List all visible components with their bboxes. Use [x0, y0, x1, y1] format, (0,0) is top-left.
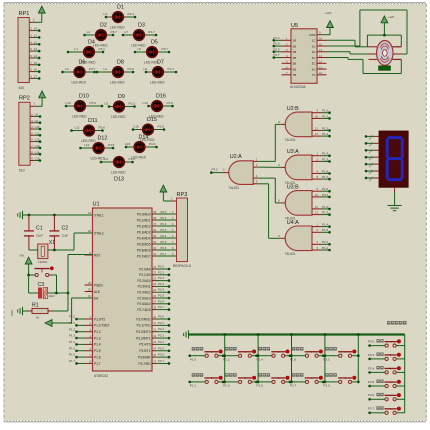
- svg-text:38: 38: [153, 216, 156, 220]
- U1 P3.0 wire: [152, 315, 170, 321]
- svg-text:P3.4/T0: P3.4/T0: [139, 343, 150, 347]
- svg-text:P0.5/AD5: P0.5/AD5: [137, 242, 151, 246]
- svg-text:510: 510: [19, 86, 25, 90]
- 7-seg pin P0.5 wire: [365, 168, 379, 175]
- svg-text:P1.1: P1.1: [190, 384, 197, 388]
- svg-text:LED-RED: LED-RED: [72, 115, 87, 119]
- U1 P1.0 wire: [69, 315, 84, 321]
- U1 P1.2 wire: [69, 327, 84, 333]
- svg-text:P1.5: P1.5: [94, 349, 101, 353]
- svg-text:P1.0: P1.0: [322, 109, 329, 113]
- svg-text:X1: X1: [49, 240, 55, 246]
- svg-text:P1.5: P1.5: [69, 346, 75, 350]
- svg-text:P0.1: P0.1: [161, 216, 167, 220]
- U5 pin 6 (nc): [282, 65, 292, 69]
- svg-text:L0: L0: [65, 67, 69, 71]
- svg-text:P2.6: P2.6: [274, 47, 280, 51]
- svg-text:P3.5: P3.5: [158, 346, 164, 350]
- svg-text:P1.6: P1.6: [322, 169, 329, 173]
- svg-text:13: 13: [315, 132, 319, 136]
- svg-text:P2.4: P2.4: [158, 288, 164, 292]
- svg-text:P1.4: P1.4: [69, 340, 75, 344]
- push button 三楼上 (P1.4): [255, 347, 291, 362]
- RP3 pin 1 wire to power: [163, 192, 176, 201]
- svg-text:L15: L15: [35, 157, 40, 161]
- svg-text:5C: 5C: [312, 62, 316, 66]
- svg-text:L3: L3: [34, 47, 38, 51]
- push button 三楼下 (P1.5): [255, 373, 291, 388]
- RP2 pin 2 wire, net L8: [30, 113, 41, 118]
- +12V power terminal at U5: [325, 11, 334, 28]
- svg-text:P0.7: P0.7: [161, 252, 167, 256]
- RP2 pin 9 wire, net L15: [30, 157, 41, 162]
- U1 P3.6 wire: [152, 353, 170, 359]
- svg-text:15: 15: [319, 42, 323, 46]
- svg-text:D12: D12: [98, 136, 108, 142]
- svg-text:3B: 3B: [293, 50, 297, 54]
- svg-text:P1.3: P1.3: [322, 211, 329, 215]
- svg-text:P1.3: P1.3: [322, 132, 329, 136]
- svg-text:P2.2: P2.2: [158, 276, 164, 280]
- svg-text:2C: 2C: [312, 44, 316, 48]
- svg-text:D7: D7: [157, 60, 164, 66]
- driver IC U5 ULN2003A: [290, 23, 317, 89]
- U1 pin 31 stub (EA): [85, 297, 93, 299]
- svg-text:P1.5: P1.5: [257, 384, 264, 388]
- AND gate U4:A 74LS21: [278, 220, 331, 256]
- LED D10: [65, 94, 104, 119]
- svg-text:P1.7: P1.7: [94, 362, 101, 366]
- svg-text:P1.5: P1.5: [322, 228, 329, 232]
- svg-text:P1.7: P1.7: [290, 384, 297, 388]
- U1 P1.4 wire: [69, 340, 84, 346]
- svg-text:L5: L5: [105, 101, 109, 105]
- svg-text:27: 27: [153, 300, 156, 304]
- svg-text:10: 10: [153, 315, 156, 319]
- svg-text:D5: D5: [151, 40, 158, 46]
- svg-text:6C: 6C: [312, 67, 316, 71]
- U1 pin 1 stub (P1.0/T2): [85, 318, 93, 320]
- svg-text:LED-RED: LED-RED: [72, 81, 87, 85]
- svg-text:10: 10: [319, 71, 323, 75]
- svg-text:P2.5/A13: P2.5/A13: [137, 296, 150, 300]
- svg-text:P1.4: P1.4: [322, 223, 329, 227]
- svg-text:L10: L10: [35, 125, 40, 129]
- svg-text:D11: D11: [88, 118, 98, 124]
- wire U3:A out to U2:A in2: [258, 166, 280, 168]
- svg-text:P0.3: P0.3: [161, 228, 167, 232]
- U2:A output pin 6 wire, net P3.2: [210, 168, 229, 174]
- svg-text:P1.2: P1.2: [322, 126, 329, 130]
- RP2 pin 5 wire, net L11: [30, 131, 41, 136]
- svg-text:LED-RED: LED-RED: [110, 81, 125, 85]
- svg-text:D8: D8: [117, 60, 124, 66]
- RP2 pin 1 wire to power: [30, 98, 42, 107]
- svg-text:L7: L7: [125, 30, 129, 34]
- svg-text:28: 28: [153, 305, 156, 309]
- svg-text:P1.7: P1.7: [69, 359, 75, 363]
- svg-text:P1.4: P1.4: [94, 343, 101, 347]
- push button 四楼 (P3.5): [368, 380, 405, 388]
- ground symbol (R1): [10, 307, 23, 316]
- microcontroller U1 AT89C52: [88, 202, 157, 378]
- RP1 pin 6 wire, net L4: [29, 54, 40, 59]
- svg-text:P3.4: P3.4: [158, 340, 164, 344]
- svg-text:L6: L6: [105, 157, 109, 161]
- svg-text:P1.1/T2EX: P1.1/T2EX: [94, 324, 110, 328]
- LED D14: [125, 135, 158, 160]
- U1 P3.3 wire: [152, 334, 170, 340]
- svg-text:L14: L14: [35, 150, 40, 154]
- svg-text:3C: 3C: [312, 50, 316, 54]
- svg-text:P3.7/RD: P3.7/RD: [138, 362, 151, 366]
- svg-text:+12V: +12V: [325, 11, 332, 15]
- svg-text:P2.3: P2.3: [158, 282, 164, 286]
- button common bus wire: [189, 333, 405, 335]
- U5 output pin 13 stub: [317, 54, 327, 58]
- wire U1 P0.2 to RP3 pin 4: [152, 222, 177, 226]
- 7-seg pin P0.2 wire: [365, 147, 379, 154]
- U1 pin 4 stub (P1.3): [85, 337, 93, 339]
- svg-text:16: 16: [153, 353, 156, 357]
- U1 P2.3 wire: [152, 282, 170, 288]
- svg-text:22pF: 22pF: [36, 234, 43, 238]
- svg-text:2B: 2B: [293, 44, 297, 48]
- svg-text:L5: L5: [34, 61, 38, 65]
- svg-text:14: 14: [319, 48, 323, 52]
- U1 pin 5 stub (P1.4): [85, 343, 93, 345]
- svg-text:24: 24: [153, 282, 156, 286]
- svg-text:22uF: 22uF: [48, 294, 55, 298]
- svg-text:7C: 7C: [312, 73, 316, 77]
- U5 output pin 14 stub: [317, 48, 327, 52]
- svg-text:P1.6: P1.6: [290, 358, 297, 362]
- stepper motor M1: [368, 41, 401, 71]
- svg-text:D14: D14: [139, 135, 149, 141]
- svg-text:12: 12: [315, 205, 319, 209]
- AND gate U3:A 74LS21: [278, 149, 331, 185]
- svg-text:P1.2: P1.2: [322, 205, 329, 209]
- svg-text:14: 14: [153, 340, 156, 344]
- svg-text:32: 32: [153, 252, 156, 256]
- svg-text:D1: D1: [117, 5, 124, 11]
- svg-text:GND: GND: [10, 310, 14, 316]
- svg-text:PSEN: PSEN: [94, 283, 103, 287]
- svg-text:15: 15: [153, 347, 156, 351]
- svg-text:P1.0: P1.0: [190, 358, 197, 362]
- svg-text:C3: C3: [38, 282, 45, 288]
- svg-text:P1.2: P1.2: [223, 358, 230, 362]
- U1 P1.7 wire: [69, 359, 84, 365]
- RP1 pin 1 wire to power: [29, 13, 42, 22]
- wire U1 P0.4 to RP3 pin 6: [152, 234, 177, 238]
- crystal X1 12MHz: [38, 240, 56, 264]
- wire U1 P0.7 to RP3 pin 9: [152, 252, 177, 256]
- wire button column 3 to bus: [290, 333, 293, 383]
- svg-text:13: 13: [315, 211, 319, 215]
- U5 output pin 11 stub: [317, 65, 327, 69]
- 7-seg pin P0.6 wire: [365, 175, 379, 182]
- wire button column 4 to bus: [324, 333, 327, 383]
- LED D4: [67, 40, 105, 65]
- svg-text:P3.6: P3.6: [158, 124, 165, 128]
- svg-text:P1.6: P1.6: [94, 355, 101, 359]
- wire U1 P0.6 to RP3 pin 8: [152, 246, 177, 250]
- U1 P1.6 wire: [69, 353, 84, 359]
- svg-text:P3.3/INT1: P3.3/INT1: [136, 336, 151, 340]
- svg-text:P3.2/INT0: P3.2/INT0: [136, 330, 151, 334]
- svg-text:12: 12: [153, 328, 156, 332]
- LED D5: [134, 40, 171, 65]
- U1 pin 8 stub (P1.7): [85, 362, 93, 364]
- wire motor common rail: [367, 34, 401, 47]
- U5 pin 3 (P2.6): [273, 47, 292, 53]
- svg-text:U1: U1: [93, 202, 100, 208]
- push button 一楼 (P3.0): [368, 339, 405, 347]
- U1 P3.1 wire: [152, 321, 170, 327]
- svg-text:5B: 5B: [293, 62, 297, 66]
- U1 P2.0 wire: [152, 265, 170, 271]
- svg-text:P3.1: P3.1: [158, 321, 164, 325]
- svg-text:P3.6: P3.6: [99, 125, 106, 129]
- U1 P1.5 wire: [69, 346, 84, 352]
- svg-text:L2: L2: [34, 40, 38, 44]
- wire U1 P0.3 to RP3 pin 5: [152, 228, 177, 232]
- wire U1 P0.0 to RP3 pin 2: [152, 210, 177, 214]
- svg-text:10: 10: [315, 114, 319, 118]
- svg-text:D16: D16: [156, 94, 166, 100]
- U1 pin 7 stub (P1.6): [85, 356, 93, 358]
- svg-text:37: 37: [153, 222, 156, 226]
- svg-text:26: 26: [153, 294, 156, 298]
- svg-text:P3.0: P3.0: [158, 315, 164, 319]
- wire U5 1C to motor: [327, 40, 369, 47]
- svg-text:P0.1/AD1: P0.1/AD1: [137, 218, 151, 222]
- push button (reset): [27, 266, 56, 293]
- U1 pin 3 stub (P1.2): [85, 331, 93, 333]
- 7-seg pin P0.1 wire: [365, 140, 379, 147]
- svg-text:P1.7: P1.7: [168, 67, 175, 71]
- push button 三楼 (P3.4): [368, 366, 405, 374]
- U1 pin 18 stub (XTAL2): [85, 232, 93, 234]
- wire U5 3C to motor: [327, 52, 369, 54]
- svg-text:P3.3: P3.3: [129, 101, 136, 105]
- svg-text:P3.2: P3.2: [323, 384, 330, 388]
- svg-text:ALE: ALE: [94, 290, 100, 294]
- svg-text:25: 25: [153, 288, 156, 292]
- svg-text:U4:A: U4:A: [287, 220, 299, 226]
- svg-text:L7: L7: [34, 75, 38, 79]
- svg-text:AT89C52: AT89C52: [94, 374, 108, 378]
- svg-text:13: 13: [153, 334, 156, 338]
- AND gate U2:B 74LS21: [278, 106, 331, 142]
- svg-text:RP1: RP1: [19, 11, 30, 17]
- svg-text:L15: L15: [125, 142, 130, 146]
- svg-text:L12: L12: [84, 143, 89, 147]
- svg-text:L10: L10: [66, 101, 71, 105]
- svg-text:P1.3: P1.3: [94, 336, 101, 340]
- svg-text:P2.1: P2.1: [158, 270, 164, 274]
- svg-text:P2.1/A9: P2.1/A9: [139, 273, 151, 277]
- wire button column 2 to bus: [257, 333, 260, 383]
- svg-text:P3.7: P3.7: [158, 359, 164, 363]
- svg-text:P1.0: P1.0: [69, 315, 75, 319]
- svg-text:510: 510: [19, 169, 25, 173]
- svg-text:P1.0/T2: P1.0/T2: [94, 317, 105, 321]
- U5 pin 7 (nc): [282, 71, 292, 75]
- RP1 pin 9 wire, net L7: [29, 75, 40, 80]
- LED D6: [61, 60, 96, 85]
- power terminal above RP2: [39, 91, 46, 98]
- power terminal above RP3: [160, 185, 167, 192]
- wire U3:B out to U2:A in4: [258, 178, 280, 203]
- svg-text:L1: L1: [75, 47, 79, 51]
- svg-text:P3.0: P3.0: [368, 340, 375, 344]
- svg-text:P1.0: P1.0: [322, 187, 329, 191]
- U5 pin 2 (P2.5): [273, 42, 292, 48]
- U1 pin 29 stub (PSEN): [85, 284, 93, 286]
- svg-text:P0.2: P0.2: [161, 222, 167, 226]
- svg-text:ULN2003A: ULN2003A: [290, 85, 306, 89]
- wire 7-seg to ground: [394, 187, 396, 205]
- U5 pin 4 (P2.7): [273, 53, 292, 59]
- svg-text:P0.6: P0.6: [161, 246, 167, 250]
- LED D1: [104, 5, 137, 30]
- svg-text:21: 21: [153, 265, 156, 269]
- U5 COM pin 9 wire to +12V: [317, 28, 330, 35]
- ground symbol (button bus): [188, 330, 190, 338]
- svg-text:D4: D4: [88, 40, 95, 46]
- svg-text:L12: L12: [35, 138, 40, 142]
- U1 pin 30 stub (ALE): [85, 291, 93, 293]
- svg-text:P3.6: P3.6: [158, 353, 164, 357]
- svg-text:P2.3/A11: P2.3/A11: [138, 285, 151, 289]
- svg-text:1B: 1B: [293, 39, 297, 43]
- svg-text:P2.2/A10: P2.2/A10: [137, 279, 150, 283]
- RP1 pin 7 wire, net L5: [29, 61, 40, 66]
- push button 五楼上 (P3.1): [322, 347, 358, 362]
- wire button column 5 to bus: [357, 333, 360, 383]
- svg-text:P3.0/RXD: P3.0/RXD: [136, 317, 151, 321]
- U5 output pin 10 stub: [317, 71, 327, 75]
- svg-text:12: 12: [319, 60, 323, 64]
- ground symbol below 7-seg: [388, 205, 402, 207]
- svg-text:P3.4: P3.4: [368, 366, 375, 370]
- svg-text:P1.6: P1.6: [69, 353, 75, 357]
- svg-text:COM: COM: [309, 33, 316, 37]
- svg-text:36: 36: [153, 228, 156, 232]
- svg-text:13: 13: [319, 54, 323, 58]
- svg-text:P2.7: P2.7: [158, 305, 164, 309]
- U5 output pin 16 stub: [317, 37, 327, 41]
- svg-text:L1: L1: [34, 34, 38, 38]
- svg-text:LED-RED: LED-RED: [150, 81, 165, 85]
- svg-text:4C: 4C: [312, 56, 316, 60]
- +12V power terminal at motor: [381, 15, 395, 35]
- svg-text:P1.2: P1.2: [94, 330, 101, 334]
- svg-text:D9: D9: [118, 94, 125, 100]
- svg-text:+5V: +5V: [19, 253, 24, 257]
- svg-text:D3: D3: [138, 23, 145, 29]
- svg-text:L11: L11: [35, 131, 40, 135]
- LED D7: [144, 60, 178, 85]
- svg-text:P3.1: P3.1: [99, 47, 106, 51]
- svg-text:D6: D6: [79, 60, 86, 66]
- svg-text:R1: R1: [32, 303, 39, 309]
- U1 P2.6 wire: [152, 299, 170, 305]
- svg-text:6B: 6B: [293, 67, 297, 71]
- RP2 pin 3 wire, net L9: [30, 119, 41, 124]
- svg-text:P2.7: P2.7: [274, 53, 280, 57]
- U1 pin 2 stub (P1.1/T2EX): [85, 324, 93, 326]
- LED D8: [96, 60, 135, 85]
- svg-text:D15: D15: [147, 117, 157, 123]
- svg-text:P2.5: P2.5: [158, 294, 164, 298]
- push button 二楼上 (P1.2): [222, 347, 258, 362]
- wire RST net: [68, 255, 93, 312]
- svg-text:L4: L4: [34, 54, 38, 58]
- svg-text:RST: RST: [94, 253, 100, 257]
- svg-text:12MHz: 12MHz: [38, 260, 48, 264]
- svg-text:P3.1/TXD: P3.1/TXD: [137, 324, 152, 328]
- svg-text:RESPACK-8: RESPACK-8: [173, 264, 191, 268]
- svg-text:L13: L13: [35, 144, 40, 148]
- wire U5 4C to motor (bottom loop): [327, 58, 402, 74]
- svg-text:P3.2: P3.2: [158, 327, 164, 331]
- RP1 pin 4 wire, net L2: [29, 40, 40, 45]
- svg-text:74LS21: 74LS21: [285, 252, 296, 256]
- svg-text:33: 33: [153, 246, 156, 250]
- svg-text:P3.7: P3.7: [162, 47, 169, 51]
- wire gnd to XTAL1: [23, 214, 93, 217]
- svg-text:L11: L11: [75, 125, 80, 129]
- push button 四楼上 (P1.6): [289, 347, 325, 362]
- capacitor C3 22uF electrolytic: [29, 275, 70, 299]
- power terminal above RP1: [38, 6, 45, 13]
- svg-text:L6: L6: [34, 68, 38, 72]
- svg-text:P0.7/AD7: P0.7/AD7: [137, 254, 151, 258]
- U5 output pin 15 stub: [317, 42, 327, 46]
- U5 pin 5 (nc): [282, 60, 292, 64]
- LED D3: [122, 23, 158, 48]
- svg-text:P3.6/WR: P3.6/WR: [138, 355, 151, 359]
- push button 一楼上 (P1.1): [188, 373, 224, 388]
- svg-text:P0.6/AD6: P0.6/AD6: [137, 248, 151, 252]
- svg-text:11: 11: [319, 65, 322, 69]
- svg-text:P1.7: P1.7: [149, 30, 156, 34]
- svg-text:P1.7: P1.7: [322, 175, 329, 179]
- svg-text:17: 17: [153, 359, 156, 363]
- svg-text:XTAL2: XTAL2: [94, 231, 104, 235]
- svg-text:D2: D2: [100, 23, 107, 29]
- LED D13: [100, 157, 135, 183]
- svg-text:L8: L8: [35, 113, 39, 117]
- svg-text:P3.6: P3.6: [90, 101, 97, 105]
- ground symbol (crystal circuit): [22, 211, 24, 219]
- resistor pack RP1: [18, 11, 29, 90]
- svg-text:P1.3: P1.3: [223, 384, 230, 388]
- svg-text:L2: L2: [87, 30, 91, 34]
- svg-text:35: 35: [153, 234, 156, 238]
- U1 pin 9 stub (RST): [85, 254, 93, 256]
- svg-text:P0.2/AD2: P0.2/AD2: [137, 224, 151, 228]
- AND gate U2:A 74LS21: [228, 154, 258, 190]
- svg-text:12: 12: [315, 126, 319, 130]
- svg-text:34: 34: [153, 240, 156, 244]
- push button 二楼下 (P1.3): [222, 373, 258, 388]
- svg-text:L3: L3: [104, 12, 108, 16]
- wire U4:A out to U2:A in5: [258, 184, 280, 239]
